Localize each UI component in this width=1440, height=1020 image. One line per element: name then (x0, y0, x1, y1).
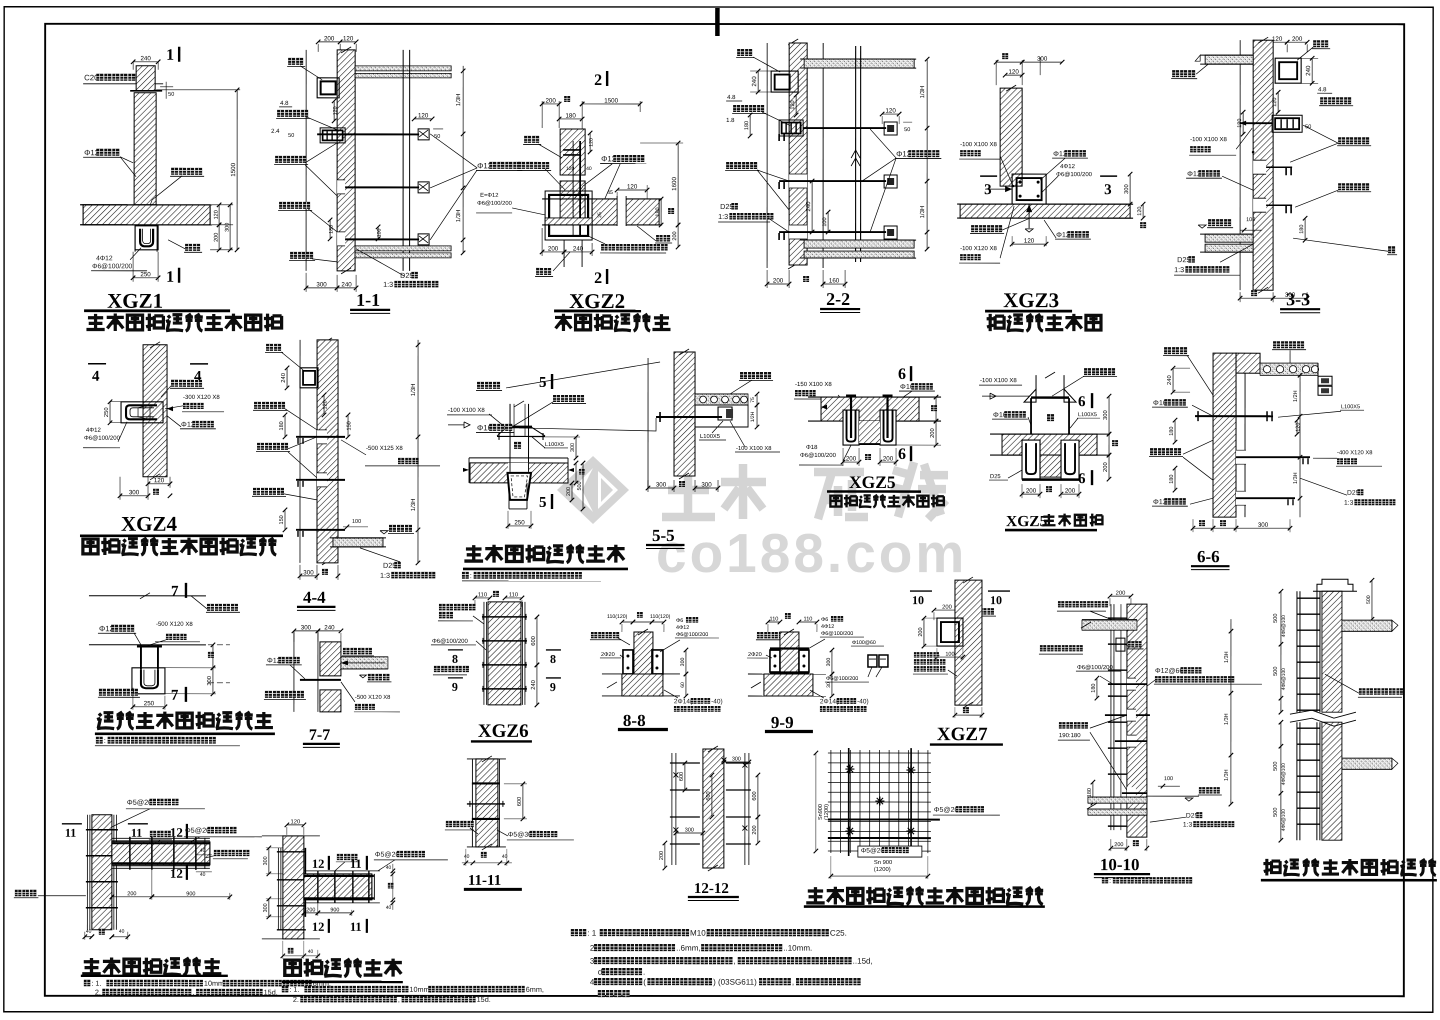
label mesh tie note (434, 666, 440, 672)
svg-text:200: 200 (1114, 842, 1123, 848)
svg-text:-100 X100 X8: -100 X100 X8 (1190, 136, 1227, 143)
label ring beam (1128, 641, 1134, 647)
svg-text:300: 300 (206, 676, 213, 686)
svg-text:-500 X120 X8: -500 X120 X8 (156, 621, 193, 628)
tie 2 (1236, 450, 1246, 464)
svg-text:150: 150 (279, 515, 285, 524)
svg-text:100: 100 (945, 652, 954, 658)
wall below slab lines (134, 225, 136, 252)
white slot in slab (617, 196, 626, 226)
title cross wall (285, 960, 301, 975)
svg-text:250: 250 (140, 271, 151, 278)
label concrete wall left (518, 162, 525, 169)
svg-text:300: 300 (303, 569, 314, 576)
svg-text:XGZ6: XGZ6 (478, 721, 529, 742)
anchor box on beam (718, 407, 732, 420)
svg-text:60: 60 (680, 682, 686, 688)
section marker 9 right (546, 677, 561, 679)
svg-text:1/3H: 1/3H (455, 94, 462, 107)
dims 200 900 below (112, 896, 152, 898)
svg-text:300: 300 (732, 757, 741, 763)
svg-text:10: 10 (990, 593, 1002, 607)
lowest tie (1127, 787, 1136, 799)
svg-text:240: 240 (1166, 375, 1173, 385)
svg-text:9: 9 (550, 680, 556, 694)
svg-text:L100X5: L100X5 (700, 433, 720, 440)
left extension line (305, 50, 307, 271)
label joint face (1199, 787, 1205, 793)
svg-text:500: 500 (1273, 808, 1279, 817)
svg-text:6: 6 (898, 446, 906, 463)
svg-text:40: 40 (200, 872, 206, 878)
tie level 1 with cage box (779, 120, 803, 136)
svg-text:8: 8 (550, 652, 556, 666)
svg-text:240: 240 (573, 245, 584, 252)
rebar box on mesh (1116, 638, 1125, 651)
label anchor tie (337, 854, 343, 860)
svg-text:120: 120 (790, 100, 796, 109)
section marker 3 left (980, 175, 997, 177)
dim 200 right (757, 817, 759, 843)
pier hatch between U (859, 421, 880, 444)
svg-text:2: 2 (594, 270, 602, 287)
svg-text:300: 300 (701, 481, 712, 488)
ring beam box (300, 368, 318, 388)
mid tie bar (1105, 714, 1150, 716)
beam right with circles (695, 393, 748, 395)
U column element (121, 402, 163, 423)
svg-text:1:3: 1:3 (380, 571, 390, 580)
label new column method (439, 604, 446, 611)
U element right (1061, 440, 1079, 479)
svg-text:5: 5 (539, 495, 547, 511)
svg-text:45: 45 (607, 190, 613, 196)
note under title (462, 572, 469, 579)
dim 120 on wall (333, 101, 335, 121)
dim 600 left (684, 763, 686, 790)
svg-text:250: 250 (514, 519, 525, 526)
bottom dims 300 wall 300 (647, 480, 649, 492)
ladder column verticals (1296, 591, 1298, 712)
notes 2 lines (84, 980, 91, 987)
U element (132, 668, 165, 694)
svg-text:200: 200 (659, 851, 665, 860)
svg-text::: : (470, 571, 472, 580)
bottom dims wall wall 300 (1192, 519, 1194, 532)
svg-text:-100 X100 X8: -100 X100 X8 (448, 407, 485, 414)
section marker 11 top left (62, 823, 82, 825)
svg-text:120: 120 (418, 112, 429, 119)
beam stub right lower (1342, 757, 1392, 759)
dim 180 upper (1096, 678, 1098, 698)
svg-text:4Φ12: 4Φ12 (676, 625, 689, 631)
svg-text:(1200): (1200) (874, 866, 891, 873)
svg-text:200: 200 (548, 245, 559, 252)
right dims 300 wall 200 500 (529, 436, 580, 438)
x marks (673, 772, 678, 777)
floating tie plates detail (868, 655, 877, 667)
thick mesh edges (112, 842, 210, 844)
svg-text:XGZ5: XGZ5 (1006, 513, 1048, 530)
horizontal wall hatched (304, 874, 372, 900)
right dims wall 200 (919, 396, 941, 398)
svg-text:200: 200 (752, 825, 758, 834)
top dims 120 200 (1267, 41, 1287, 43)
mesh lines horizontal wall (112, 837, 210, 839)
outer mesh lines (671, 753, 673, 865)
svg-text:110: 110 (769, 617, 778, 623)
svg-text:1600: 1600 (671, 177, 678, 191)
svg-text:4Φ6@100: 4Φ6@100 (1281, 809, 1287, 831)
svg-text:180: 180 (1087, 788, 1093, 797)
svg-text:Φ6@100/200: Φ6@100/200 (92, 263, 132, 270)
svg-text:200: 200 (545, 97, 556, 104)
slab top line (469, 457, 568, 459)
label new column (99, 689, 106, 696)
wall stub top (136, 66, 155, 91)
svg-text:Φ6@100/200: Φ6@100/200 (826, 676, 858, 682)
svg-text:Φ6@100/200: Φ6@100/200 (1077, 664, 1114, 671)
svg-text:6-6: 6-6 (1197, 547, 1220, 566)
svg-text:300: 300 (263, 856, 269, 865)
svg-text:120: 120 (627, 183, 638, 190)
svg-text:160: 160 (829, 278, 840, 285)
svg-text:1/3H: 1/3H (410, 499, 417, 512)
top slab left (1205, 55, 1253, 64)
dim 120 above slot (617, 189, 647, 191)
left dim chain (1280, 591, 1282, 712)
bottom dims 40 wall 40 (84, 932, 86, 940)
long verticals (402, 50, 404, 271)
svg-text:1500: 1500 (230, 162, 237, 176)
right dims 300 200 (1108, 396, 1110, 434)
grid (830, 750, 832, 853)
svg-text:4-4: 4-4 (303, 588, 326, 607)
svg-text:d: d (598, 968, 602, 977)
dim 150 right (347, 415, 349, 437)
U element 2 (880, 410, 896, 445)
title cn add structural column at wall junction (86, 314, 104, 330)
svg-text:900: 900 (330, 907, 339, 913)
section marker 8 right (546, 649, 561, 651)
svg-text:12: 12 (312, 857, 325, 871)
svg-text:5-5: 5-5 (652, 526, 675, 545)
label concrete wall 1 (254, 402, 261, 409)
svg-text:,: , (792, 978, 794, 987)
mini 50 (903, 121, 912, 123)
dim 30 (831, 674, 833, 696)
flange plate (497, 435, 545, 437)
svg-text:120: 120 (1024, 238, 1035, 245)
svg-text:600: 600 (679, 772, 685, 781)
svg-text:-40): -40) (711, 698, 723, 705)
ring beam box (771, 71, 798, 92)
svg-text:200: 200 (1292, 36, 1303, 43)
tie level 2 (789, 174, 807, 188)
label concrete wall 3 (253, 488, 260, 495)
ring beam box right (1275, 58, 1301, 83)
steel plate thick bar (506, 426, 532, 429)
label ring beam (1313, 40, 1320, 47)
top dims wall 300 (995, 60, 997, 85)
svg-text:240: 240 (1305, 65, 1312, 76)
horizontal wall hatched (112, 842, 210, 865)
svg-text:200: 200 (846, 456, 857, 463)
svg-text:200: 200 (918, 627, 924, 636)
svg-text:,: , (398, 995, 400, 1004)
svg-text:180: 180 (1299, 225, 1305, 234)
ladder rungs (1297, 597, 1320, 599)
svg-text:,: , (734, 957, 736, 966)
watermark logo diamond (557, 456, 629, 524)
gusset diagonals (497, 427, 507, 436)
svg-text:15d.: 15d. (264, 988, 278, 997)
svg-text:1/3H: 1/3H (1224, 713, 1230, 725)
right vertical dim (926, 59, 928, 249)
beam stub right upper (1342, 619, 1392, 621)
label floor surface (1208, 219, 1215, 226)
svg-text:1:3: 1:3 (1344, 500, 1354, 507)
svg-text:300: 300 (301, 624, 312, 631)
top slab band 1 (355, 66, 451, 71)
title zongheng wall (82, 958, 101, 974)
svg-text:1: 1 (166, 47, 174, 64)
svg-text:-500 X125 X8: -500 X125 X8 (366, 445, 403, 452)
label mortar fill top left (1040, 645, 1046, 651)
svg-text:5: 5 (539, 375, 547, 391)
svg-text:8: 8 (452, 652, 458, 666)
svg-text:9: 9 (452, 680, 458, 694)
rebar box right (652, 650, 663, 674)
svg-text:1/2H: 1/2H (750, 411, 756, 422)
rebar square tie1 (418, 129, 429, 140)
bottom dims 200 wall 160 (766, 270, 768, 288)
svg-text:240: 240 (280, 373, 287, 383)
svg-text:) (03SG611): ) (03SG611) (713, 978, 757, 987)
label floor surface with triangle (368, 674, 375, 681)
wall hatched (317, 340, 338, 563)
svg-text:9-9: 9-9 (771, 713, 794, 732)
dim 240 (133, 61, 158, 63)
title cn yang corner column (555, 314, 572, 331)
dim 250 bottom (132, 252, 134, 282)
dim 300 mid (676, 832, 703, 834)
svg-text:150: 150 (347, 421, 353, 430)
tie bar 3 (296, 529, 345, 531)
svg-text:M10;: M10; (690, 929, 708, 938)
svg-text:500: 500 (1273, 667, 1279, 676)
svg-text:..10mm.: ..10mm. (783, 944, 812, 953)
dim 120 (323, 395, 325, 415)
left boundary lines (293, 631, 295, 712)
svg-text:2.: 2. (95, 988, 101, 997)
svg-text:co188.com: co188.com (656, 522, 967, 584)
svg-text:25: 25 (597, 212, 603, 218)
svg-text:300: 300 (1258, 522, 1269, 529)
label anchor ties (150, 831, 156, 837)
svg-text:40: 40 (464, 854, 470, 860)
svg-text:240: 240 (530, 680, 537, 690)
label concrete wall left mid (1059, 722, 1066, 729)
column above with break (1035, 375, 1037, 396)
dim 250 bottom (508, 525, 531, 527)
section marker 10 left (910, 590, 932, 592)
corbel top profile (1317, 579, 1353, 591)
tie slot verticals in wall (572, 141, 574, 237)
svg-text:100: 100 (1246, 217, 1255, 223)
box below funnel (508, 483, 510, 509)
dim 200 top (934, 609, 960, 611)
dim 100 (827, 212, 829, 232)
bottom dims wall 300 (1239, 292, 1241, 302)
rebar square 3 (884, 226, 897, 239)
right 1/3H dim (1230, 619, 1232, 804)
rebar square 2 (884, 175, 897, 188)
svg-text:180: 180 (329, 225, 335, 234)
note line (96, 737, 103, 744)
column hatched (780, 632, 799, 674)
dim 100 below (937, 656, 963, 658)
right dims 300 120 (1129, 174, 1131, 204)
label column top left (1164, 347, 1171, 354)
svg-text:7: 7 (171, 584, 179, 600)
section marker 4 right (190, 363, 208, 365)
wall hatched (674, 352, 695, 476)
svg-text:1500: 1500 (604, 97, 618, 104)
svg-text:3-3: 3-3 (1286, 289, 1310, 309)
svg-text:4Φ12: 4Φ12 (96, 255, 113, 262)
svg-text:300: 300 (685, 827, 694, 833)
label ring beam (288, 58, 295, 65)
wall notch tie lower mid (1127, 735, 1136, 747)
svg-text:120: 120 (1008, 69, 1019, 76)
vertical wall hatched upper (560, 129, 585, 175)
svg-text:Φ6: Φ6 (676, 618, 683, 624)
dim 180 (559, 118, 582, 120)
svg-text:,: , (192, 988, 194, 997)
svg-text:300: 300 (129, 489, 140, 496)
right small dims (756, 394, 758, 405)
svg-text:120: 120 (323, 400, 329, 409)
top slab band 2 (355, 73, 451, 78)
bottom dim wall 40 (288, 948, 294, 954)
rebar square tie2 (418, 182, 429, 193)
wall hatched (488, 602, 521, 705)
label concrete wall right (965, 608, 972, 615)
end lines (371, 874, 373, 900)
svg-text:4Φ6@100: 4Φ6@100 (1281, 668, 1287, 690)
svg-text:500: 500 (1273, 762, 1279, 771)
bottom slab band 2 (355, 253, 451, 258)
existing beam right (341, 656, 388, 658)
svg-text:2: 2 (594, 72, 602, 89)
svg-text:-40): -40) (857, 698, 869, 705)
svg-text:7: 7 (171, 688, 179, 704)
dim 600 right (536, 617, 538, 665)
svg-text:120: 120 (343, 35, 354, 42)
label concrete wall left (1150, 448, 1157, 455)
arrow down from column (1028, 204, 1030, 228)
top and bottom plates (770, 647, 809, 649)
label original wall (757, 632, 763, 638)
svg-text::: : (104, 736, 106, 745)
dim 180 lower (1092, 782, 1094, 803)
svg-text:100: 100 (352, 519, 361, 525)
rebar boxes right (1318, 376, 1332, 385)
steel plate on top (1031, 396, 1069, 398)
svg-text:300: 300 (316, 281, 327, 288)
svg-text:240: 240 (324, 624, 335, 631)
svg-text:600: 600 (706, 791, 712, 800)
watermark text tumu zaixian (662, 462, 948, 519)
svg-text:L100X5: L100X5 (1078, 412, 1097, 418)
svg-text:-400 X120 X8: -400 X120 X8 (1337, 449, 1372, 456)
label concrete wall 2 (257, 443, 264, 450)
left extension line (299, 340, 301, 563)
label through-wall bolt (1084, 368, 1091, 375)
tie level2 with hooks (1253, 198, 1266, 212)
svg-text:6: 6 (1078, 394, 1086, 410)
svg-text:120: 120 (154, 477, 165, 484)
title welded mesh (806, 887, 824, 903)
upper slab left (1082, 619, 1137, 621)
svg-text:1/3H: 1/3H (1224, 651, 1230, 663)
top dims 200 120 (318, 41, 340, 43)
label original ring beam (343, 648, 350, 655)
label hollow slab (553, 395, 560, 402)
bottom heavy bar (1022, 478, 1079, 481)
thick mesh edges horizontal wall (304, 875, 374, 877)
section marker 4 left (88, 363, 106, 365)
svg-text:12: 12 (170, 866, 183, 881)
dim 120 above sq (882, 113, 899, 115)
svg-text:110: 110 (803, 617, 812, 623)
left dims 60 200 60 (923, 618, 925, 646)
svg-text:2.4: 2.4 (271, 128, 280, 135)
dash centerline right of U (208, 682, 230, 684)
dim 240 mid (811, 181, 813, 232)
bottom dims 200 wall (1110, 839, 1112, 851)
svg-text:200: 200 (214, 233, 220, 242)
hanger rods (1030, 398, 1032, 468)
svg-text:8-8: 8-8 (623, 711, 646, 730)
title new column elevation (1263, 859, 1280, 876)
svg-text:XGZ7: XGZ7 (937, 724, 988, 745)
left mesh lines (1110, 604, 1112, 830)
label beam inside (514, 442, 521, 449)
bottom slab band 1 (355, 246, 451, 251)
top slab right (804, 59, 914, 68)
pier hatch between U (1040, 455, 1061, 477)
tall wall hatched (1127, 604, 1147, 837)
label hollow slab top (1273, 341, 1280, 348)
wall hatched vertical (143, 345, 167, 477)
svg-text:200: 200 (1065, 488, 1076, 495)
tie rod horizontal (656, 416, 722, 418)
bottom dims 300 240 (305, 273, 307, 292)
left extension line (647, 358, 649, 488)
beam with circles right (1260, 362, 1318, 364)
wall hatched (476, 759, 498, 847)
bottom dims 200 240 (541, 228, 543, 256)
funnel trapezoid (508, 471, 531, 473)
svg-text:1:3: 1:3 (383, 280, 393, 289)
svg-text:100: 100 (377, 228, 383, 237)
U element left (1022, 440, 1040, 479)
dim 120 top (287, 824, 304, 826)
dim 150 left lower (284, 510, 286, 530)
dim 120 (1296, 420, 1298, 434)
